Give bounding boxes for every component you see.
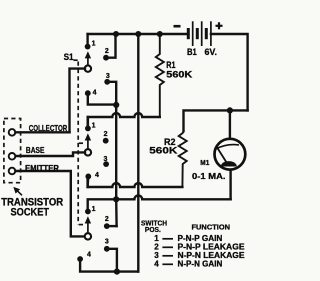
- switch S1c contact 3: [104, 246, 110, 252]
- transistor socket collector terminal: [9, 129, 16, 136]
- wire collector: [15, 131, 69, 133]
- wire switch linkage dash bank2: [79, 142, 85, 144]
- arrow transistor socket pointer: [13, 187, 22, 195]
- wire R1 return rail y117 with hops: [88, 113, 160, 126]
- switch S1b contact 2: [103, 138, 109, 144]
- svg-text:2: 2: [105, 48, 109, 55]
- svg-text:3: 3: [106, 73, 110, 80]
- switch S1b contact 3: [103, 161, 109, 167]
- wire bus2 battery-minus vertical x138: [137, 34, 139, 272]
- wire meter top lead: [229, 110, 231, 139]
- svg-text:1: 1: [92, 123, 96, 130]
- svg-text:2: 2: [105, 216, 109, 223]
- svg-text:BASE: BASE: [26, 146, 45, 155]
- wire bus1 meter-minus vertical x116: [115, 105, 118, 226]
- switch S1c contact 1: [85, 209, 91, 215]
- wire meter return rail y199 with hop: [88, 195, 231, 209]
- svg-text:560K: 560K: [166, 69, 192, 80]
- switch S1a contact 4: [85, 90, 91, 96]
- wire switch linkage dashed vertical: [77, 62, 79, 225]
- battery minus sign: [174, 25, 181, 28]
- switch S1b wiper: [85, 133, 91, 155]
- svg-text:3: 3: [105, 239, 109, 246]
- svg-text:0-1 MA.: 0-1 MA.: [192, 171, 226, 181]
- wire switch linkage dash bank3: [79, 224, 86, 226]
- svg-text:560K: 560K: [149, 145, 177, 156]
- svg-text:1: 1: [92, 41, 96, 48]
- battery B1: [188, 21, 211, 46]
- svg-text:4: 4: [95, 172, 99, 179]
- switch S1b contact 4: [85, 174, 91, 180]
- svg-text:N-P-N GAIN: N-P-N GAIN: [178, 260, 223, 269]
- wire R2 return rail y187 with hops: [88, 179, 183, 187]
- switch S1a contact 3: [104, 79, 110, 85]
- wire S1a wiper to collector riser: [70, 69, 86, 133]
- svg-text:6V.: 6V.: [205, 47, 218, 57]
- switch S1a contact 2: [103, 55, 109, 61]
- wire base: [15, 152, 85, 156]
- wire meter bottom lead: [229, 170, 231, 200]
- meter M1: [215, 139, 246, 170]
- node junction top rail x116: [113, 31, 119, 37]
- svg-text:4: 4: [154, 260, 159, 269]
- node junction S1a contacts 3-4: [113, 102, 119, 108]
- wire bottom rail y271.6: [80, 261, 138, 272]
- transistor socket dashed box: [4, 119, 21, 183]
- node junction top rail x138: [135, 31, 141, 37]
- svg-text:4: 4: [87, 252, 91, 259]
- svg-text:COLLECTOR: COLLECTOR: [29, 124, 68, 133]
- switch S1a contact 1: [85, 44, 91, 50]
- node junction top rail x160: [157, 31, 163, 37]
- switch S1a wiper: [85, 51, 91, 72]
- svg-text:B1: B1: [187, 47, 197, 57]
- switch S1c wiper: [85, 216, 91, 239]
- wire battery plus rail y110: [184, 110, 248, 131]
- wire battery plus to corner and down: [211, 34, 248, 110]
- svg-text:SOCKET: SOCKET: [11, 206, 50, 218]
- wire top rail (battery minus bus): [88, 33, 189, 35]
- table switch positions: [141, 219, 245, 269]
- transistor socket base terminal: [9, 153, 16, 160]
- switch S1c contact 4: [77, 256, 83, 262]
- svg-text:M1: M1: [200, 160, 209, 167]
- node junction bottom rail: [114, 269, 120, 275]
- svg-text:S1: S1: [64, 52, 75, 63]
- svg-text:2: 2: [104, 131, 108, 138]
- battery plus sign: [216, 22, 223, 29]
- switch S1c contact 2: [104, 223, 110, 229]
- switch S1b contact 1: [85, 125, 91, 131]
- transistor socket emitter terminal: [9, 168, 16, 175]
- wire emitter: [15, 171, 85, 236]
- svg-text:EMITTER: EMITTER: [25, 164, 59, 173]
- wire switch linkage dash S1: [74, 59, 80, 61]
- node junction bus1 meter rail: [113, 196, 119, 202]
- svg-text:FUNCTION: FUNCTION: [192, 223, 231, 232]
- node junction meter top: [227, 107, 233, 113]
- svg-text:POS.: POS.: [145, 225, 161, 234]
- svg-text:4: 4: [93, 90, 97, 97]
- resistor R2: [179, 131, 187, 187]
- svg-text:1: 1: [92, 206, 96, 213]
- resistor R1: [156, 34, 164, 117]
- svg-text:3: 3: [104, 156, 108, 163]
